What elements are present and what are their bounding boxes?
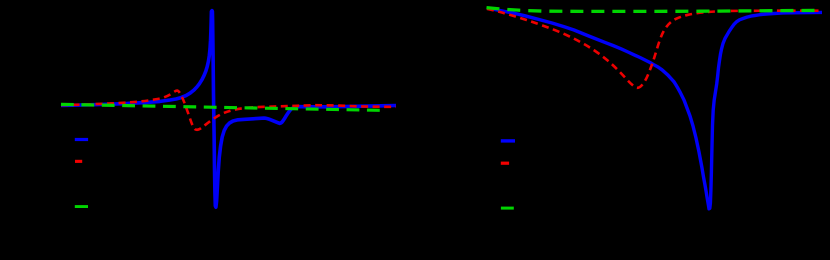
legend key: green dash (left panel) (75, 205, 88, 208)
blue solid curve (right panel) (487, 8, 822, 209)
legend key: red dash (left panel) (75, 160, 82, 163)
legend key: red dash (right panel) (501, 162, 509, 165)
green dashed baseline (left panel) (61, 104, 384, 110)
red dashed curve (left panel) (61, 91, 396, 130)
legend key: blue solid line (right panel) (501, 139, 515, 142)
green dashed baseline (right panel) (487, 8, 823, 12)
legend key: green dash (right panel) (501, 207, 514, 210)
blue solid curve (left panel) (61, 11, 396, 208)
red dashed curve (right panel) (487, 9, 822, 88)
legend key: blue solid line (left panel) (75, 138, 88, 141)
